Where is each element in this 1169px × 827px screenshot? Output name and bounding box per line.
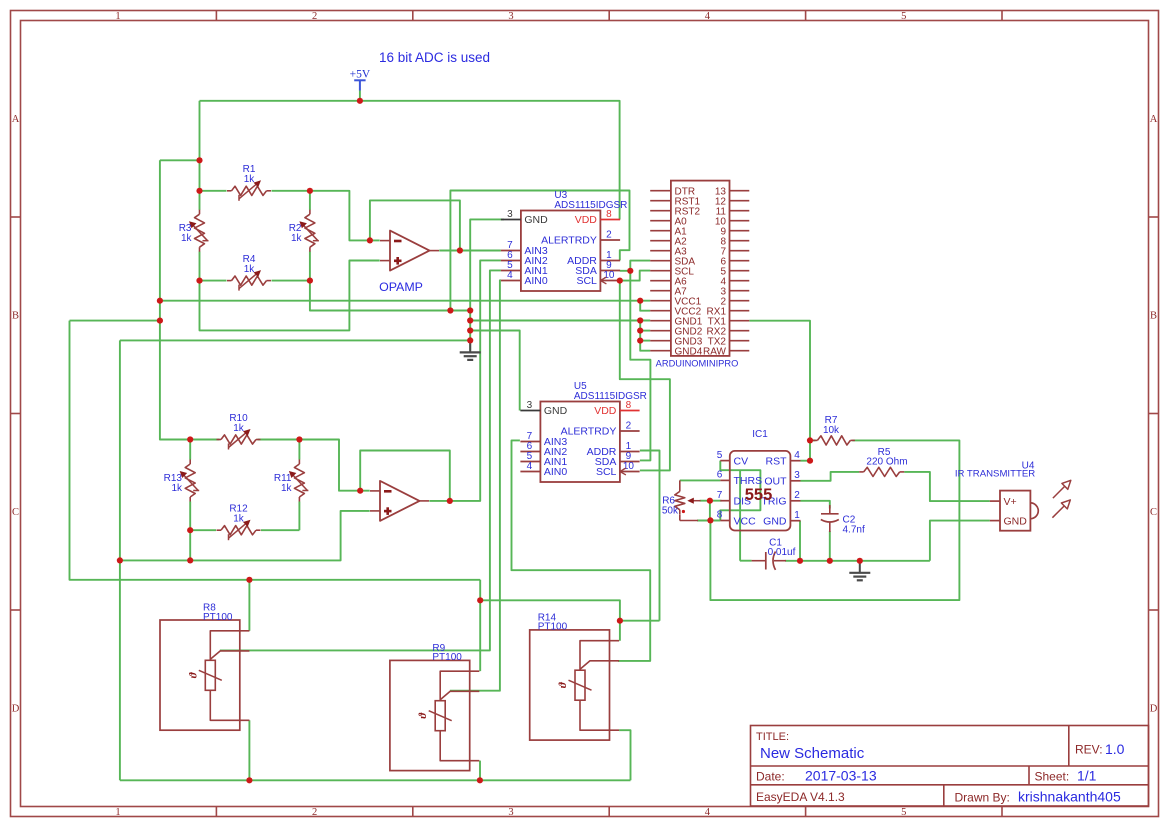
junction node at 470.2,320.5 [467, 317, 473, 323]
junction node at 309.9,280.6 [307, 278, 313, 284]
wire U3 AIN0 vertical [450, 280, 501, 690]
svg-text:4: 4 [705, 11, 711, 22]
wire R4 left link [200, 280, 227, 282]
thermistor R9 element and leads [440, 671, 479, 761]
svg-text:50k: 50k [662, 506, 679, 517]
ground symbol bridge area [469, 340, 471, 352]
svg-text:VDD: VDD [594, 405, 617, 417]
thermistor R9 middle tap [440, 691, 479, 699]
wire U3 ADDR ground link [450, 191, 629, 311]
resistor R1 zigzag [232, 186, 267, 195]
svg-text:EasyEDA V4.1.3: EasyEDA V4.1.3 [756, 790, 845, 804]
wire R10 left link [190, 439, 219, 441]
op-amp plus sign [384, 510, 392, 513]
svg-text:3: 3 [508, 807, 513, 818]
junction node at 369.9,240.4 [367, 237, 373, 243]
wire 555 TRIG to C2 [801, 501, 830, 509]
thermistor R14 middle tap [580, 661, 619, 669]
svg-text:IC1: IC1 [752, 429, 768, 440]
svg-text:2: 2 [626, 421, 632, 432]
thermistor R9 body box [390, 660, 470, 770]
junction node at 640.2,330.6 [637, 328, 643, 334]
title block DrawnBy separator [943, 785, 945, 806]
junction node at 630.3,270.8 [627, 268, 633, 274]
wire R7 right loop [710, 440, 959, 600]
svg-text:1: 1 [115, 11, 120, 22]
svg-text:B: B [1150, 311, 1157, 322]
svg-text:New Schematic: New Schematic [760, 745, 865, 762]
junction node at 190.2,560.4 [187, 557, 193, 563]
IC IC1 555 body [730, 451, 791, 531]
thermistor R8 middle tap [210, 651, 249, 659]
wire opamp1 plus net [200, 261, 380, 331]
svg-text:GND: GND [524, 214, 548, 226]
svg-text:Drawn By:: Drawn By: [955, 791, 1010, 805]
svg-text:220 Ohm: 220 Ohm [866, 457, 907, 468]
svg-text:5: 5 [717, 450, 723, 461]
wire bridge2 feed rail [70, 321, 481, 580]
svg-text:1: 1 [794, 510, 800, 521]
junction node at 470.2,310.5 [467, 307, 473, 313]
junction node at 470.2,340.4 [467, 337, 473, 343]
svg-text:ARDUINOMINIPRO: ARDUINOMINIPRO [656, 359, 739, 369]
wire R11 bottom link [298, 502, 300, 531]
wire 555 GND1 down [799, 521, 801, 561]
svg-text:1/1: 1/1 [1077, 768, 1097, 784]
wire GND2 jog [640, 330, 650, 332]
resistor R12 zigzag [221, 526, 256, 535]
op-amp A2 [370, 481, 429, 521]
svg-text:REV:: REV: [1075, 743, 1103, 757]
ground symbol 555 area [859, 561, 861, 573]
resistor R7 zigzag [817, 436, 850, 445]
junction node at 810,460.7 [807, 458, 813, 464]
title block row separator 1 [751, 765, 1149, 767]
wire U3 SDA link [620, 270, 631, 272]
svg-text:SCL: SCL [596, 466, 617, 478]
svg-text:3: 3 [508, 11, 513, 22]
thermistor R14 strike [569, 680, 592, 690]
wire 555 OUT to R5 [801, 472, 860, 481]
junction node at 190.2,530.2 [187, 527, 193, 533]
module U4 emission arrow 1 [1053, 487, 1065, 499]
wire bridge1 left rail [160, 160, 190, 439]
wire SDA to arduino [630, 261, 650, 271]
thermistor R9 strike [429, 711, 452, 721]
wire R5 to U4 V+ [904, 472, 990, 501]
svg-text:ALERTRDY: ALERTRDY [561, 426, 617, 438]
wire R9 bottom terminal [479, 761, 481, 781]
wire R7 left link [810, 439, 816, 441]
wire GND chain arduino [640, 321, 650, 351]
capacitor C1 leads [752, 560, 766, 562]
wire +5V top rail [200, 101, 620, 220]
module U4 lens bulge [1030, 503, 1038, 519]
title block outline [751, 726, 1149, 807]
junction node at 829.8,560.8 [827, 558, 833, 564]
svg-text:A: A [1150, 114, 1158, 125]
wire R9 top terminal [479, 580, 481, 671]
junction node at 159.9,320.6 [157, 318, 163, 324]
svg-text:ADS1115IDGSR: ADS1115IDGSR [554, 200, 627, 211]
svg-text:C: C [1150, 507, 1157, 518]
wire R6 wiper to DIS [700, 500, 722, 502]
wire GND bus east to arduino [470, 320, 650, 322]
wire R13 bottom link [189, 502, 191, 531]
svg-text:VCC: VCC [734, 515, 757, 527]
svg-text:GND4: GND4 [675, 346, 703, 357]
svg-text:4: 4 [794, 450, 800, 461]
svg-text:AIN0: AIN0 [524, 275, 548, 287]
module U4 emission arrow 2 [1052, 506, 1064, 518]
wire 555 CV jog [720, 461, 760, 521]
svg-text:RST: RST [766, 456, 788, 468]
svg-text:3: 3 [794, 470, 800, 481]
wire node B1 left branch [160, 159, 200, 161]
wire bottom bus [120, 779, 631, 781]
wire VCC bus [160, 300, 650, 302]
op-amp input stubs [370, 490, 380, 492]
svg-text:PT100: PT100 [432, 652, 462, 663]
junction node at 360.2,490.7 [357, 488, 363, 494]
wire R2 bottom to bus [310, 281, 470, 311]
op-amp minus sign [394, 240, 402, 243]
svg-text:0.01uf: 0.01uf [768, 547, 796, 558]
svg-text:2: 2 [312, 11, 317, 22]
wire opamp2 plus net [120, 511, 370, 561]
wire R3 bottom link [199, 252, 201, 281]
op-amp minus sign [384, 490, 392, 493]
svg-text:VDD: VDD [575, 214, 598, 226]
svg-text:D: D [1150, 704, 1158, 715]
svg-text:3: 3 [507, 209, 513, 220]
IC U3 VDD pin 8 stub [600, 219, 620, 221]
IC U5 AIN pin stubs [520, 441, 540, 443]
svg-text:GND: GND [763, 516, 787, 528]
thermistor R8 element and leads [210, 631, 249, 721]
svg-text:10: 10 [603, 270, 615, 281]
wire R8 top terminal [248, 580, 250, 631]
junction node at 249.4,579.8 [246, 577, 252, 583]
op-amp triangle [380, 481, 420, 521]
wire R6 wiper down link [709, 501, 711, 521]
svg-text:1k: 1k [171, 483, 183, 494]
wire U3 GND pin net [470, 219, 504, 350]
wire R8 bottom terminal [248, 720, 250, 780]
wire R12 left link [190, 529, 216, 531]
resistor R4 zigzag [232, 276, 267, 285]
svg-text:Date:: Date: [756, 770, 785, 784]
wire opamp2 feedback [360, 451, 450, 501]
svg-text:1k: 1k [233, 514, 245, 525]
junction node at 249.4,780.3 [246, 777, 252, 783]
frame column tick marks bottom [215, 807, 217, 817]
junction node at 619.8,280.6 [617, 278, 623, 284]
wire R3 top link [199, 191, 201, 210]
wire excitation bus 600 [480, 600, 620, 641]
potentiometer R6 wiper arrow [690, 500, 701, 502]
potentiometer R6 zigzag [675, 491, 685, 509]
IC U5 GND pin 3 stub [520, 410, 540, 412]
IC U3 SCL clock wedge [600, 277, 606, 284]
wire R1 left link [200, 190, 227, 192]
wire SCL down to U5 [620, 281, 670, 471]
junction node at 119.9,560.4 [117, 557, 123, 563]
svg-text:C: C [12, 507, 19, 518]
op-amp input stubs [380, 240, 390, 242]
svg-text:1k: 1k [244, 264, 256, 275]
junction node at 199.5,160.3 [196, 157, 202, 163]
resistor R5 zigzag [864, 467, 900, 476]
wire R2 bottom link [309, 252, 311, 281]
IC IC1 right pin stubs [790, 460, 800, 462]
thermistor R14 body box [530, 630, 610, 740]
junction node at 479.9,780.3 [477, 777, 483, 783]
svg-text:ALERTRDY: ALERTRDY [541, 235, 597, 247]
junction node at 199.5,190.8 [196, 188, 202, 194]
junction node at 459.9,250.5 [457, 247, 463, 253]
frame row tick marks left [11, 216, 21, 218]
svg-text:ADS1115IDGSR: ADS1115IDGSR [574, 391, 647, 402]
wire C1 drop from CV net [739, 470, 741, 561]
wire U5 ADDR to R14 top [640, 451, 660, 621]
wire bridge2 bottom rail [119, 340, 121, 780]
resistor R13 zigzag [185, 464, 195, 497]
module U4 pin leads [990, 500, 1000, 502]
wire R14 bottom terminal [619, 730, 630, 780]
capacitor C1 plates [765, 552, 767, 570]
IC U3 GND pin 3 stub [501, 219, 521, 221]
svg-text:OPAMP: OPAMP [379, 280, 423, 294]
wire R2 top link [309, 191, 311, 210]
junction node at 359.9,100.8 [357, 98, 363, 104]
capacitor C2 plates [821, 513, 839, 515]
resistor R11 zigzag [294, 464, 304, 497]
svg-text:2017-03-13: 2017-03-13 [805, 768, 877, 784]
svg-text:D: D [12, 704, 20, 715]
svg-text:2: 2 [794, 490, 800, 501]
wire VCC2 jog [640, 301, 650, 311]
svg-text:+5V: +5V [350, 69, 371, 81]
svg-text:5: 5 [901, 807, 906, 818]
thermistor R8 strike [199, 670, 222, 680]
op-amp triangle [390, 231, 430, 271]
power flag +5V [354, 79, 365, 81]
IC U5 VDD pin 8 stub [620, 410, 640, 412]
wire ground bus 555 [785, 560, 930, 562]
svg-text:GND: GND [544, 405, 568, 417]
wire R10 right link [258, 439, 300, 441]
wire RST link [801, 460, 811, 462]
junction node at 709.9,500.7 [707, 498, 713, 504]
junction node at 309.9,190.8 [307, 188, 313, 194]
op-amp output stub [430, 250, 440, 252]
title block REV separator [1068, 726, 1070, 767]
IC U5 SCL clock wedge [620, 468, 626, 475]
svg-text:TITLE:: TITLE: [756, 731, 789, 743]
wire arduino TX1 to 555 RST [749, 321, 810, 461]
svg-text:8: 8 [717, 510, 723, 521]
wire U5 AIN3 to R14 mid [512, 440, 651, 661]
junction node at 480.2,600.3 [477, 597, 483, 603]
thermistor R8 body box [160, 620, 240, 730]
wire opamp1 feedback [370, 200, 460, 250]
junction node at 470.2,330.5 [467, 327, 473, 333]
svg-text:PT100: PT100 [538, 622, 568, 633]
wire R13 top link [189, 440, 191, 460]
svg-text:1k: 1k [244, 174, 256, 185]
svg-text:AIN0: AIN0 [544, 466, 568, 478]
wire SDA down to U5 [630, 271, 650, 461]
wire R11 top link [298, 440, 300, 460]
svg-text:4: 4 [527, 461, 533, 472]
svg-text:IR TRANSMITTER: IR TRANSMITTER [955, 469, 1035, 480]
svg-text:1k: 1k [181, 233, 193, 244]
svg-text:16 bit ADC is used: 16 bit ADC is used [379, 50, 490, 65]
wire R1 to opamp1 minus [310, 191, 380, 241]
junction node at 159.9,300.7 [157, 298, 163, 304]
junction node at 619.9,620.7 [617, 618, 623, 624]
op-amp A1 [380, 231, 439, 271]
module U4 IR transmitter body [1000, 491, 1030, 531]
wire GND3 jog [640, 340, 650, 342]
resistor R10 zigzag [221, 435, 256, 444]
connector J1 right pin stubs [730, 190, 750, 192]
svg-text:6: 6 [717, 470, 723, 481]
wire C1 left link [740, 560, 752, 562]
junction node at 190.2,439.5 [187, 436, 193, 442]
wire opamp2 out link [429, 500, 450, 502]
svg-text:1k: 1k [281, 483, 293, 494]
svg-text:Sheet:: Sheet: [1035, 770, 1070, 784]
svg-text:2: 2 [312, 807, 317, 818]
wire R6 bottom link [697, 520, 720, 522]
frame row tick marks right [1149, 216, 1159, 218]
svg-text:1k: 1k [233, 423, 245, 434]
svg-text:4.7nf: 4.7nf [843, 525, 865, 536]
junction node at 710.4,520.4 [707, 517, 713, 523]
svg-text:SCL: SCL [576, 275, 597, 287]
wire left drop to bridge1 [199, 101, 201, 191]
wire R1 right link [272, 190, 310, 192]
wire U3 AIN2 to opamp2 out [450, 260, 501, 501]
thermistor R14 element and leads [580, 641, 619, 731]
resistor R2 zigzag [305, 214, 315, 247]
svg-text:GND: GND [1004, 515, 1028, 527]
wire bridge2 bottom tap [189, 530, 191, 560]
IC U3 right pin stubs [600, 239, 620, 241]
wire R14 top link [620, 620, 660, 622]
IC U3 ADS1115IDGSR body [521, 211, 601, 292]
wire U4 GND link [930, 521, 990, 561]
title block row separator 2 [751, 784, 1149, 786]
wire R4 right link [272, 280, 310, 282]
frame column tick marks top [215, 11, 217, 21]
svg-text:2: 2 [606, 230, 612, 241]
junction node at 640.2,300.7 [637, 298, 643, 304]
svg-text:4: 4 [507, 270, 513, 281]
wire ground bus 340 [120, 339, 470, 341]
junction node at 859.8,560.8 [857, 558, 863, 564]
wire GND bus west [70, 320, 160, 322]
svg-text:1: 1 [115, 807, 120, 818]
junction node at 199.5,280.6 [196, 278, 202, 284]
svg-text:1k: 1k [291, 233, 303, 244]
wire opamp1 output to U3 AIN3 [439, 250, 501, 252]
junction node at 450.4,310.5 [447, 307, 453, 313]
junction node at 640.2,320.5 [637, 317, 643, 323]
wire C2 bottom [829, 531, 831, 561]
op-amp output stub [420, 500, 430, 502]
svg-text:1.0: 1.0 [1105, 741, 1125, 757]
junction node at 810,440.4 [807, 437, 813, 443]
svg-text:V+: V+ [1004, 496, 1017, 508]
connector J1 ARDUINOMINIPRO body [671, 181, 730, 356]
title block Sheet separator [1028, 766, 1030, 785]
svg-text:RAW: RAW [703, 346, 727, 357]
svg-text:10: 10 [623, 461, 635, 472]
svg-text:5: 5 [901, 11, 906, 22]
wire SCL link [620, 271, 650, 281]
svg-text:krishnakanth405: krishnakanth405 [1018, 789, 1121, 805]
wire ground bus 330 east [470, 331, 520, 411]
junction node at 299.4,439.5 [296, 436, 302, 442]
capacitor C2 leads [829, 505, 831, 514]
IC U5 ADS1115IDGSR body [540, 402, 620, 483]
svg-text:A: A [12, 114, 20, 125]
svg-text:555: 555 [745, 486, 773, 504]
svg-text:CV: CV [734, 455, 749, 467]
junction node at 800,560.8 [797, 558, 803, 564]
wire R10 to opamp2 minus [299, 440, 369, 491]
IC IC1 left pin stubs [720, 460, 730, 462]
junction node at 449.8,500.9 [447, 498, 453, 504]
svg-text:10k: 10k [823, 425, 840, 436]
junction node at 640.2,340.6 [637, 338, 643, 344]
wire R12 right link [261, 529, 299, 531]
op-amp plus sign [394, 259, 402, 262]
wire THRS to R6 top [680, 479, 721, 481]
svg-text:4: 4 [705, 807, 711, 818]
svg-text:7: 7 [717, 490, 723, 501]
IC U3 AIN pin stubs [501, 250, 521, 252]
svg-text:PT100: PT100 [203, 612, 233, 623]
resistor R3 zigzag [195, 214, 205, 247]
svg-text:B: B [12, 311, 19, 322]
IC U5 right pin stubs [620, 430, 640, 432]
connector J1 left pin stubs [650, 190, 671, 192]
wire U3 AIN1 vertical [220, 270, 501, 650]
svg-text:3: 3 [527, 400, 533, 411]
